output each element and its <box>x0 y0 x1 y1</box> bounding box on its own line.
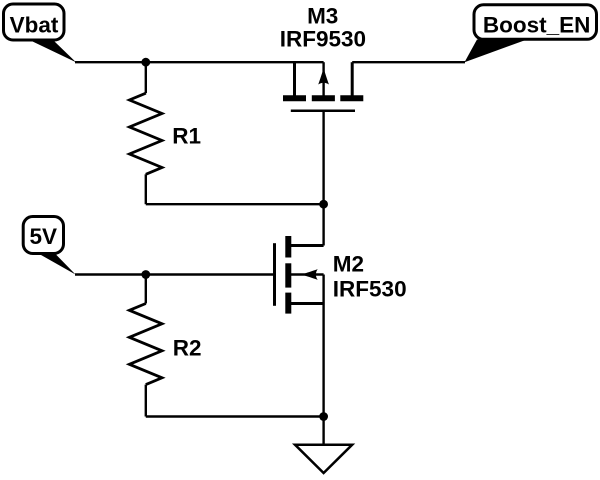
svg-text:R2: R2 <box>173 336 202 361</box>
svg-text:M3: M3 <box>307 4 338 29</box>
channel bar top <box>285 236 291 258</box>
channel bar right <box>340 95 363 101</box>
drain terminal stub <box>351 62 354 95</box>
node junction gate net <box>319 200 328 209</box>
gate plate <box>273 243 276 306</box>
bulk arrow shaft <box>322 62 324 98</box>
wire M3 drain to Boost_EN <box>352 61 465 63</box>
transistor M2 (N-channel MOSFET) <box>275 236 324 314</box>
bulk arrow line <box>290 273 324 275</box>
net flag 5V <box>23 217 75 275</box>
wire junction down to M2 drain <box>322 204 324 245</box>
wire Vbat to M3 source/bulk <box>75 61 324 63</box>
channel bar left <box>283 95 306 101</box>
gate plate <box>291 109 355 112</box>
node junction R1 top <box>141 58 150 67</box>
wire R1 bottom to M3 gate node <box>146 203 324 205</box>
svg-text:Boost_EN: Boost_EN <box>483 13 591 38</box>
wire R2 bottom to ground node <box>146 415 324 417</box>
bulk to source tie <box>322 275 324 304</box>
resistor R2 <box>129 275 162 417</box>
svg-text:IRF9530: IRF9530 <box>280 26 366 51</box>
node junction R2 top <box>141 270 150 279</box>
transistor M3 (P-channel MOSFET) <box>283 62 363 110</box>
svg-text:5V: 5V <box>30 224 58 249</box>
channel bar middle <box>285 263 291 287</box>
source terminal stub <box>293 62 296 95</box>
svg-text:Vbat: Vbat <box>10 13 59 38</box>
net flag Boost_EN <box>465 5 597 62</box>
channel bar middle <box>312 95 335 101</box>
drain lead <box>290 244 324 247</box>
svg-text:M2: M2 <box>333 251 364 276</box>
resistor R1 <box>129 62 162 204</box>
ground <box>295 417 352 474</box>
net flag Vbat <box>4 4 77 62</box>
source lead <box>290 302 324 305</box>
wire 5V to M2 gate <box>75 273 275 275</box>
node junction ground net <box>319 412 328 421</box>
svg-text:R1: R1 <box>172 124 201 149</box>
bulk arrowhead (points left) <box>302 269 318 280</box>
channel bar bottom <box>285 293 291 314</box>
wire M3 gate down to junction <box>322 111 324 205</box>
svg-text:IRF530: IRF530 <box>333 277 407 302</box>
wire M2 source down <box>322 304 324 417</box>
bulk arrowhead (points up) <box>318 69 329 85</box>
